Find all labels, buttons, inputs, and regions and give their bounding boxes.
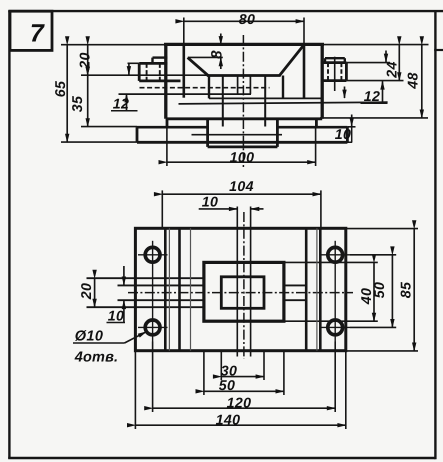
neighbor cell box bottom tick (434, 49, 443, 51)
svg-text:7: 7 (30, 20, 45, 48)
svg-text:104: 104 (229, 179, 254, 195)
dim 10 left lower arrow + link (123, 301, 125, 323)
problem number box (10, 11, 52, 50)
dim 40 ext bottom (284, 320, 378, 322)
svg-text:140: 140 (216, 413, 241, 429)
dim 10 base shelf (bottom ext) (335, 141, 353, 143)
right flange boss top (325, 57, 345, 59)
right flange top (321, 61, 347, 64)
left flange hole hidden line 2 (159, 63, 161, 81)
dim 50 ext right (283, 351, 285, 395)
hole bottom-right crosshair horizontal (321, 326, 351, 328)
dim 80 line (184, 20, 304, 22)
slot line right hidden (249, 76, 251, 95)
funnel mouth right vertical (303, 45, 306, 98)
body edge right (full height) (319, 228, 322, 350)
dim 30 ext right (263, 351, 265, 380)
leader diagonal to hole (125, 332, 147, 343)
chamfer depth extension line (8) (188, 56, 223, 58)
left flange boss top (153, 56, 168, 58)
dim 12 right ext (flange top ext) (346, 62, 390, 64)
opening edge left (full height) (178, 228, 181, 350)
dim 30 ext left (220, 351, 222, 380)
hole bottom-left (145, 320, 160, 335)
right wall (321, 44, 324, 118)
dim 12 right leftside down arrow (344, 87, 346, 99)
base bottom edge (137, 141, 347, 144)
dim 100 ext right (315, 127, 317, 166)
bottom block right wall (276, 119, 279, 147)
left flange bottom (139, 80, 180, 83)
dim 104 ext right (320, 190, 322, 228)
svg-text:80: 80 (239, 12, 255, 28)
channel lower thin line left (119, 93, 252, 95)
dim 20 extension bottom (81, 74, 208, 76)
dim 104 line (162, 193, 321, 195)
dim 65 extension bottom (61, 141, 137, 143)
dim 50 line (204, 390, 284, 392)
dim 12 left lower arrow (126, 94, 128, 111)
inner opening wall left below floor (208, 76, 210, 99)
100-section right wall (315, 119, 318, 127)
100-section left wall (166, 119, 169, 127)
dim 85 ext top (346, 228, 418, 230)
slot outer line top left side (87, 277, 204, 279)
bottom block left wall (206, 119, 209, 147)
dim 8 lower arrow (220, 58, 222, 69)
hidden line inside base (192, 134, 283, 136)
dim 12 right lower arrow (382, 81, 384, 103)
front view vertical centerline (242, 35, 244, 168)
dim 50 right ext top (350, 254, 396, 256)
right flange hole hidden line 1 (327, 63, 329, 81)
slot inner line bottom left side (118, 299, 204, 301)
dim 104 ext left (161, 190, 163, 228)
dim 10 vertical with arrow (351, 115, 353, 127)
dim 120 ext right (334, 342, 336, 413)
slot vertical line right (250, 207, 252, 357)
svg-text:4отв.: 4отв. (74, 350, 119, 366)
left wall (164, 44, 167, 118)
dim 65 line (66, 45, 68, 142)
base top right segment (277, 126, 347, 129)
dim 80 extension right (303, 18, 305, 45)
dim 30 line (221, 376, 264, 378)
svg-text:65: 65 (53, 80, 69, 97)
sheet frame right (434, 11, 436, 459)
step extension line right (48) (320, 117, 428, 119)
dim 10 left shelf (107, 322, 126, 324)
sheet frame top (8, 10, 443, 12)
dim 40 ext top (284, 261, 378, 263)
base left wall (136, 127, 139, 142)
hole top-right crosshair horizontal (321, 254, 351, 256)
dim 24 extension (flange bottom ext) (346, 80, 403, 82)
top edge of body (164, 43, 324, 46)
leader diameter callout shelf (73, 342, 125, 344)
dim 100 ext left (166, 127, 168, 166)
svg-text:24: 24 (385, 61, 401, 78)
left flange hole hidden line 1 (146, 63, 148, 81)
svg-text:30: 30 (221, 363, 237, 379)
dim 20 left line (94, 278, 96, 307)
inner opening wall right below floor (282, 76, 284, 99)
dim 140 line (135, 424, 345, 426)
dim 24 line (398, 45, 400, 81)
svg-text:85: 85 (399, 281, 415, 298)
dim 12 right upper arrow (385, 51, 387, 63)
dim 24 top extension (324, 44, 429, 46)
svg-text:12: 12 (364, 89, 380, 105)
30 square (221, 277, 264, 309)
dim 50 ext left (203, 351, 205, 395)
svg-text:12: 12 (113, 97, 129, 113)
dim 12 left shelf (111, 110, 138, 112)
svg-text:35: 35 (70, 95, 86, 112)
base plate outline (135, 228, 345, 350)
left flange outer wall (138, 63, 141, 81)
slot vertical line left (236, 207, 238, 357)
left flange top (139, 62, 167, 65)
slot inner line top left side (118, 284, 204, 286)
dim 10 base ext top (347, 126, 355, 128)
long thin line under channel (179, 102, 388, 104)
plan horizontal centerline (128, 292, 353, 294)
slot inner line top right side (284, 284, 306, 286)
sheet frame left (8, 11, 10, 459)
dim 12 left ext (flange top) (128, 62, 140, 64)
dim 120 ext left (152, 342, 154, 413)
funnel floor (207, 74, 281, 77)
dim 50 right ext bottom (350, 326, 396, 328)
svg-text:100: 100 (230, 150, 255, 166)
inner square hole line left (222, 76, 224, 127)
dim 85 ext bottom (346, 350, 418, 352)
faint body line plan right (316, 228, 318, 350)
svg-text:10: 10 (202, 195, 218, 211)
plan vertical centerline (243, 212, 245, 359)
dim 20 line (87, 45, 89, 75)
dim 80 extension left (183, 18, 185, 45)
hole top-left crosshair horizontal (138, 254, 168, 256)
hole top-left (145, 247, 160, 262)
svg-text:20: 20 (78, 52, 94, 69)
dim 100 line (167, 161, 316, 163)
funnel right slope (279, 45, 303, 75)
hole top-right (328, 247, 343, 262)
svg-text:Ø10: Ø10 (75, 329, 104, 345)
hole right column centerline vertical (334, 241, 336, 342)
funnel mouth left vertical (183, 45, 186, 98)
svg-text:8: 8 (208, 50, 225, 59)
opening edge right (full height) (305, 228, 308, 350)
dim 10 top right arrow (251, 208, 264, 210)
dim 140 ext left (134, 351, 136, 429)
inner square hole line right (264, 76, 266, 127)
funnel left slope (188, 58, 209, 76)
faint body line plan left 1 (168, 228, 170, 350)
hidden channel dashed line (140, 87, 270, 89)
dim 10 top shelf-line (199, 208, 238, 210)
slot outer line bottom left side (87, 306, 204, 308)
svg-text:10: 10 (108, 308, 124, 324)
right flange hole hidden line 2 (340, 63, 342, 81)
svg-text:50: 50 (372, 282, 388, 298)
dim 120 line (153, 407, 336, 409)
hole bottom-right (328, 320, 343, 335)
sheet frame bottom (8, 457, 435, 459)
dim 140 ext right (345, 351, 347, 429)
svg-text:20: 20 (79, 283, 95, 300)
dim 12 right shelf (361, 102, 388, 104)
step edge (top of 100 section) (166, 117, 322, 120)
dim 10 vertical lower part (351, 126, 353, 142)
slot line left hidden (237, 76, 239, 95)
right flange bottom (321, 79, 347, 82)
svg-text:10: 10 (335, 127, 351, 143)
dim 10 left upper arrow (123, 266, 125, 285)
dim 48 line (421, 45, 423, 118)
svg-text:48: 48 (406, 72, 422, 89)
dim 8 upper arrow (220, 34, 222, 45)
dim 35 extension bottom (81, 126, 137, 128)
body edge left (full height) (164, 228, 167, 350)
dim 65 extension top (61, 44, 168, 46)
right flange boss right side (344, 58, 346, 62)
bottom block bottom edge (208, 145, 278, 148)
hole left column centerline vertical (152, 241, 154, 342)
base top left segment (137, 126, 208, 129)
svg-text:120: 120 (227, 395, 252, 411)
svg-text:50: 50 (219, 378, 235, 394)
dim 12 left upper arrow (128, 63, 130, 74)
dim 40 line (373, 262, 375, 321)
dim 50 right line (391, 255, 393, 328)
hole bottom-left crosshair horizontal (138, 326, 168, 328)
right flange hole centerline (334, 57, 336, 91)
dim 85 line (413, 229, 415, 351)
slot inner line bottom right side (284, 299, 306, 301)
dim 35 line (87, 75, 89, 126)
channel lower thin line mid (209, 97, 321, 99)
faint body line plan left 2 (190, 228, 192, 350)
right flange outer wall (345, 63, 348, 81)
left flange boss left side (151, 58, 153, 64)
base right wall (346, 127, 349, 142)
right flange boss left side (324, 58, 326, 62)
50 square (204, 262, 284, 321)
